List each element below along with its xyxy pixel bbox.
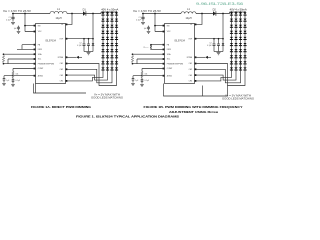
node PWM input arrow <box>205 56 211 59</box>
capacitor C1 <box>141 14 144 22</box>
label CVDC <box>144 28 147 30</box>
label LED rating <box>101 8 118 11</box>
label RFPWM <box>144 47 149 49</box>
label C4 <box>135 80 138 82</box>
svg-text:SCL: SCL <box>38 59 42 61</box>
pin FB <box>163 44 170 47</box>
label L1 <box>187 8 190 11</box>
pin CH1 <box>189 63 197 66</box>
svg-text:PWM/BRITE/FPWM: PWM/BRITE/FPWM <box>167 63 184 65</box>
svg-text:FIGURE 1A. DIRECT PWM DIMMING: FIGURE 1A. DIRECT PWM DIMMING <box>31 105 92 109</box>
wire OVP <box>66 38 94 40</box>
svg-text:CH4: CH4 <box>189 81 193 83</box>
pin SDA <box>34 53 43 56</box>
wire AGND <box>133 76 165 79</box>
label L1 <box>57 8 60 11</box>
node C1 tap <box>142 13 144 15</box>
wire PWM line <box>4 63 36 65</box>
svg-text:RFPWM: RFPWM <box>144 47 149 49</box>
wire SDA <box>133 53 165 55</box>
label VIN input <box>3 9 31 13</box>
capacitor CVDC <box>147 26 150 31</box>
label LED note 2 <box>222 97 254 100</box>
wire LED top bar <box>101 11 117 13</box>
label C2 value <box>77 45 81 47</box>
label U1 name <box>174 39 185 42</box>
svg-text:40V 4 x 50mA: 40V 4 x 50mA <box>101 8 118 11</box>
pin AGND <box>34 74 44 77</box>
node EN tap <box>24 13 26 15</box>
diode D1 <box>213 11 216 16</box>
label LED note 1 <box>225 95 251 98</box>
svg-text:4.7µF: 4.7µF <box>207 45 211 47</box>
svg-text:CH1: CH1 <box>189 63 193 65</box>
wire LED top bar <box>230 11 246 13</box>
capacitor C2 <box>83 39 86 52</box>
capacitor C1 <box>11 14 14 22</box>
wire VOUT down <box>92 14 94 39</box>
wire D1 to LEDs <box>216 12 229 14</box>
pin PWM/BRITE/FPWM <box>163 63 184 66</box>
wire COMP <box>142 69 165 72</box>
pin SCL <box>163 58 171 61</box>
pin AGND <box>163 74 173 77</box>
svg-text:SCL: SCL <box>167 59 171 61</box>
pin EN <box>34 25 41 28</box>
svg-text:AGND: AGND <box>167 74 173 77</box>
node OVP a <box>83 38 85 40</box>
wire CH3 route <box>67 72 107 81</box>
svg-text:40V 4 x 50mA: 40V 4 x 50mA <box>230 8 247 11</box>
pin CH1 <box>60 63 68 66</box>
wire cap ground bus <box>84 51 93 53</box>
resistor RC <box>12 72 14 78</box>
wire PWM input <box>195 56 206 58</box>
svg-text:CH3: CH3 <box>189 75 193 77</box>
node PWM a <box>132 53 134 55</box>
label L1 value <box>185 17 191 20</box>
svg-text:10k: 10k <box>16 74 19 76</box>
label CC <box>145 80 149 82</box>
ground output caps <box>87 53 91 55</box>
svg-text:1µF: 1µF <box>135 80 138 82</box>
label C1 value <box>136 19 142 21</box>
node EN <box>154 25 156 27</box>
svg-text:VIN = 4.5V TO 26.5V: VIN = 4.5V TO 26.5V <box>133 9 161 13</box>
wire CH4 route <box>67 72 103 81</box>
svg-text:0.1µF: 0.1µF <box>145 80 149 82</box>
wire CH2 route <box>196 69 240 83</box>
pin FPWM <box>187 56 197 59</box>
ground COMP <box>11 84 15 86</box>
wire FB <box>151 44 165 46</box>
capacitor CC <box>12 78 15 84</box>
diode D1 <box>83 11 86 16</box>
IC U1 ISL97634 <box>165 24 195 84</box>
label caption figure 1B line1 <box>144 105 244 109</box>
node VOUT <box>92 13 94 15</box>
wire PGND drop <box>202 86 204 97</box>
label CC <box>16 80 20 82</box>
wire cap ground bus <box>214 51 223 53</box>
ground CVDC <box>147 31 151 33</box>
svg-text:PWM/BRITE/FPWM: PWM/BRITE/FPWM <box>38 63 55 65</box>
svg-text:COMP: COMP <box>38 68 44 70</box>
svg-text:CH3: CH3 <box>60 75 64 77</box>
wire EN feed <box>25 14 36 32</box>
label RC <box>145 74 148 76</box>
pin COMP <box>34 68 44 71</box>
wire VOUT down <box>222 14 224 39</box>
pin EN <box>163 25 170 28</box>
pin LX <box>190 24 196 27</box>
label C1 <box>138 17 140 19</box>
label C2 <box>209 43 211 45</box>
label C2 value <box>207 45 211 47</box>
node LX tap <box>201 13 203 15</box>
LED string CH3 <box>110 12 113 72</box>
wire AGND <box>4 76 36 79</box>
label caption figure 1B line2 <box>169 110 218 114</box>
svg-text:CH1: CH1 <box>60 63 64 65</box>
svg-text:4.7µF: 4.7µF <box>77 45 81 47</box>
resistor RC <box>141 72 143 78</box>
svg-text:FPWM: FPWM <box>187 57 193 59</box>
node LED tops <box>231 11 246 13</box>
wire PGND rail <box>164 84 228 97</box>
label C1 <box>8 17 10 19</box>
svg-text:GOOD LEDS MATCHING: GOOD LEDS MATCHING <box>91 96 123 99</box>
pin FSW <box>163 49 171 52</box>
wire FSW <box>17 48 36 50</box>
svg-text:10µH: 10µH <box>185 17 191 20</box>
label LED note 2 <box>91 96 123 99</box>
ground C4 <box>131 83 135 85</box>
LED string CH4 <box>243 12 246 72</box>
pin LX <box>61 24 67 27</box>
wire SCL <box>137 59 165 64</box>
zener D3 <box>222 39 225 52</box>
capacitor C3 <box>87 39 90 52</box>
pin FPWM <box>58 56 68 59</box>
svg-text:VIN = 4.5V TO 26.5V: VIN = 4.5V TO 26.5V <box>3 9 31 13</box>
svg-text:FIGURE 1. ISL97634 TYPICAL APP: FIGURE 1. ISL97634 TYPICAL APPLICATION D… <box>76 115 179 119</box>
svg-text:AGND: AGND <box>38 74 44 77</box>
wire CH4 route <box>196 72 231 81</box>
wire FB <box>22 45 36 50</box>
capacitor CVDC <box>17 26 20 31</box>
svg-text:10µH: 10µH <box>55 17 61 20</box>
svg-text:FPWM: FPWM <box>58 57 64 59</box>
wire PGND rail <box>34 84 87 94</box>
capacitor C2 <box>213 39 216 52</box>
zener D3 <box>92 39 95 52</box>
label U1 name <box>45 39 56 42</box>
pin COMP <box>163 68 173 71</box>
wire D1 to LEDs <box>86 12 101 14</box>
capacitor C4 <box>3 79 6 83</box>
node PWM b <box>132 63 134 65</box>
label VIN input <box>133 9 161 13</box>
node OVP a <box>213 38 215 40</box>
label LED rating <box>230 8 247 11</box>
pin OVP <box>59 38 67 41</box>
pin FSW <box>34 49 42 52</box>
pin OVP <box>188 38 196 41</box>
node OVP b <box>218 38 220 40</box>
wire VIN rail <box>142 13 181 15</box>
inductor L1 <box>50 11 67 13</box>
label caption figure 1A <box>31 105 92 109</box>
svg-text:ISL97634: ISL97634 <box>45 39 56 42</box>
capacitor C4 <box>132 79 135 83</box>
label D1 <box>213 8 217 11</box>
pin FB <box>34 44 41 47</box>
resistor R1 pulldown <box>2 56 4 63</box>
wire CH1 route <box>67 64 116 86</box>
node OVP b <box>88 38 90 40</box>
capacitor CC <box>141 78 144 84</box>
svg-text:COMP: COMP <box>167 68 173 70</box>
resistor RFPWM <box>150 45 152 50</box>
ground COMP <box>140 84 144 86</box>
ground C1 <box>11 22 15 24</box>
pin CH4 <box>60 80 68 83</box>
wire COMP <box>13 69 36 72</box>
wire L1 to D1 <box>196 13 213 15</box>
wire OVP <box>195 38 224 40</box>
node VOUT ovp <box>92 38 94 40</box>
LED string CH2 <box>106 12 109 72</box>
wire SCL <box>8 59 36 64</box>
pin SDA <box>163 53 172 56</box>
resistor R1 pulldown <box>131 56 133 63</box>
label CVDC <box>14 28 17 30</box>
node LX tap <box>71 13 73 15</box>
inductor L1 <box>181 12 196 14</box>
node PWM input arrow <box>76 56 82 59</box>
node C1 tap <box>12 13 14 15</box>
svg-text:CH2: CH2 <box>60 69 64 71</box>
svg-text:9-96-ISL728-E3-S6: 9-96-ISL728-E3-S6 <box>196 1 243 6</box>
node RFPWM <box>150 44 152 46</box>
pin CH4 <box>189 80 197 83</box>
svg-text:CH2: CH2 <box>189 69 193 71</box>
svg-text:FSW: FSW <box>167 49 171 51</box>
label L1 value <box>55 17 61 20</box>
wire CH2 route <box>67 69 112 83</box>
ground C1 <box>141 22 145 24</box>
svg-text:FSW: FSW <box>38 49 42 51</box>
ground C4 <box>2 83 6 85</box>
node PWM a <box>3 53 5 55</box>
svg-text:10k: 10k <box>145 74 148 76</box>
node PWM b <box>3 63 5 65</box>
label C1 value <box>6 19 12 21</box>
wire L1 to D1 <box>67 13 83 15</box>
node EN <box>24 25 26 27</box>
svg-text:1µF: 1µF <box>14 28 17 30</box>
label LED note 1 <box>94 94 120 97</box>
wire EN feed <box>155 14 165 32</box>
LED string CH2 <box>234 12 237 72</box>
ground output caps <box>217 53 221 55</box>
label D1 <box>83 8 87 11</box>
svg-text:1µF: 1µF <box>144 28 147 30</box>
LED string CH1 <box>230 12 233 72</box>
LED string CH3 <box>239 12 242 72</box>
capacitor C3 <box>217 39 220 52</box>
node LED tops <box>102 11 117 13</box>
pin CH2 <box>60 68 68 71</box>
pin PWM/BRITE/FPWM <box>34 63 55 66</box>
wire PWM input <box>66 56 77 58</box>
svg-text:1µF: 1µF <box>6 80 9 82</box>
pin CH3 <box>60 74 68 77</box>
wire CH3 route <box>196 72 236 81</box>
node VOUT <box>222 13 224 15</box>
svg-text:FIGURE 1B. PWM DIMMING WITH DI: FIGURE 1B. PWM DIMMING WITH DIMMING FREQ… <box>144 105 244 109</box>
IC U1 ISL97634 <box>36 24 66 84</box>
wire VIN rail <box>12 13 50 15</box>
LED string CH1 <box>101 12 104 72</box>
node EN tap <box>154 13 156 15</box>
wire PWM line <box>133 63 165 65</box>
label watermark <box>196 1 243 6</box>
svg-text:CH4: CH4 <box>60 81 64 83</box>
node VOUT ovp <box>222 38 224 40</box>
wire LX <box>66 14 73 25</box>
label C4 <box>6 80 9 82</box>
ground CVDC <box>17 31 21 33</box>
wire LX <box>195 14 203 25</box>
svg-text:GOOD LEDS MATCHING: GOOD LEDS MATCHING <box>222 97 254 100</box>
svg-text:ISL97634: ISL97634 <box>174 39 185 42</box>
wire CH1 route <box>196 64 245 86</box>
pin VDC <box>163 31 172 34</box>
label RC <box>16 74 19 76</box>
pin SCL <box>34 58 42 61</box>
LED string CH4 <box>115 12 118 72</box>
label caption figure 1 <box>76 115 179 119</box>
wire PGND drop <box>35 84 37 94</box>
pin CH2 <box>189 68 197 71</box>
pin CH3 <box>189 74 197 77</box>
wire SDA <box>4 53 36 55</box>
label C2 <box>79 43 81 45</box>
svg-text:0.1µF: 0.1µF <box>16 80 20 82</box>
pin VDC <box>34 31 43 34</box>
wire FSW <box>151 48 165 50</box>
